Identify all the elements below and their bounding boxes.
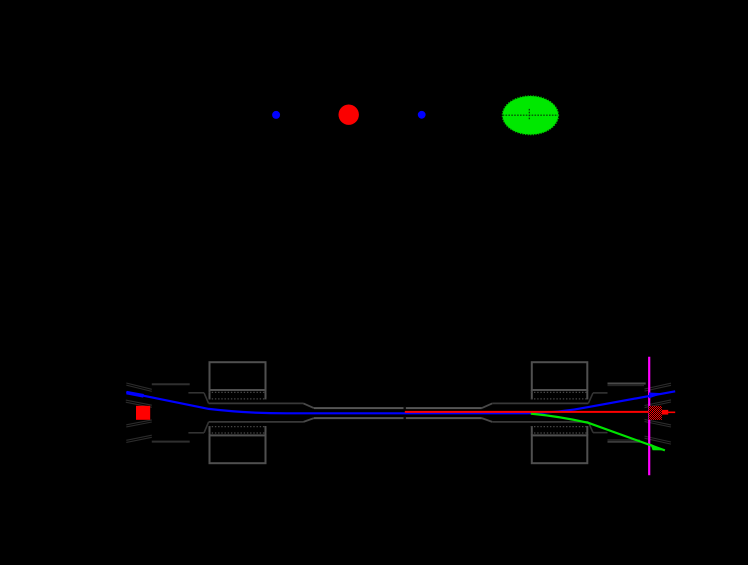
magnet 1 upper yoke	[210, 362, 266, 390]
right collimator hatch 2 (upper inner)	[645, 400, 672, 408]
magnet 1 lower pole sides	[209, 426, 211, 435]
magnet 1 upper pole sides	[209, 390, 211, 399]
right aperture lines bottom	[608, 441, 641, 443]
magnet 2 lower dotted lines	[531, 432, 589, 434]
marker: green phase-space ellipse	[503, 96, 559, 135]
exit jog bottom	[588, 422, 593, 433]
marker: small blue beam spot 1	[272, 111, 280, 119]
red trajectory arrow nub	[662, 410, 669, 415]
left collimator hatch 3 (lower inner)	[126, 420, 152, 427]
marker: red beam spot	[339, 105, 359, 125]
magnet 1 lower dotted lines	[209, 432, 267, 434]
pipe wide right bottom	[492, 421, 588, 423]
center element boundary tick bottom	[404, 416, 406, 419]
red trajectory thin tip	[668, 411, 675, 413]
entrance jog bottom	[204, 422, 209, 433]
right collimator hatch 1 (upper outer)	[645, 383, 672, 391]
blue trajectory arrowhead	[649, 393, 664, 399]
magnet 2 upper pole sides	[531, 390, 533, 399]
magnet 2 lower yoke	[532, 435, 588, 463]
ellipse vertical tick (dashed dark)	[528, 109, 530, 121]
pipe taper left bottom	[303, 418, 314, 422]
blue central trajectory	[126, 391, 675, 413]
pipe wide left top	[209, 402, 304, 404]
magenta exit plane	[648, 357, 650, 476]
ellipse horizontal axis (dotted dark)	[503, 114, 559, 116]
pipe taper left top	[303, 403, 314, 408]
pipe narrow top	[314, 407, 482, 409]
pipe wide right top	[492, 402, 588, 404]
left collimator hatch 2 (upper inner)	[126, 400, 152, 407]
magnet 2 upper yoke	[532, 362, 588, 390]
pipe taper right bottom	[482, 418, 492, 422]
red exit beam-spot square (dithered)	[649, 406, 662, 420]
marker: small blue beam spot 2	[418, 111, 426, 119]
right collimator hatch 4 (lower outer)	[645, 436, 672, 444]
magnet 1 lower yoke	[210, 435, 266, 463]
entrance jog top	[204, 393, 209, 404]
entrance pipe top	[188, 392, 204, 394]
blue trajectory start thick segment	[127, 393, 144, 396]
left collimator hatch 1 (upper outer)	[126, 383, 152, 391]
left aperture line bottom	[152, 441, 190, 443]
right aperture lines top	[608, 383, 646, 385]
magnet 2 upper dotted lines	[531, 391, 589, 393]
magnet 1 upper dotted lines	[209, 391, 267, 393]
green trajectory	[531, 414, 665, 451]
red reference trajectory	[405, 411, 668, 413]
pipe taper right top	[482, 403, 492, 408]
pipe narrow bottom	[314, 417, 482, 419]
exit pipe bottom	[593, 432, 608, 434]
left aperture line top	[152, 383, 190, 385]
magnet 2 lower pole sides	[531, 426, 533, 435]
left collimator hatch 4 (lower outer)	[126, 435, 152, 442]
exit jog top	[588, 393, 593, 404]
green trajectory arrowhead	[650, 444, 665, 451]
right collimator hatch 3 (lower inner)	[645, 419, 672, 427]
target red square	[136, 406, 150, 420]
pipe wide left bottom	[209, 421, 304, 423]
exit pipe top	[593, 392, 608, 394]
center element boundary tick top	[404, 407, 406, 410]
entrance pipe bottom	[188, 432, 204, 434]
